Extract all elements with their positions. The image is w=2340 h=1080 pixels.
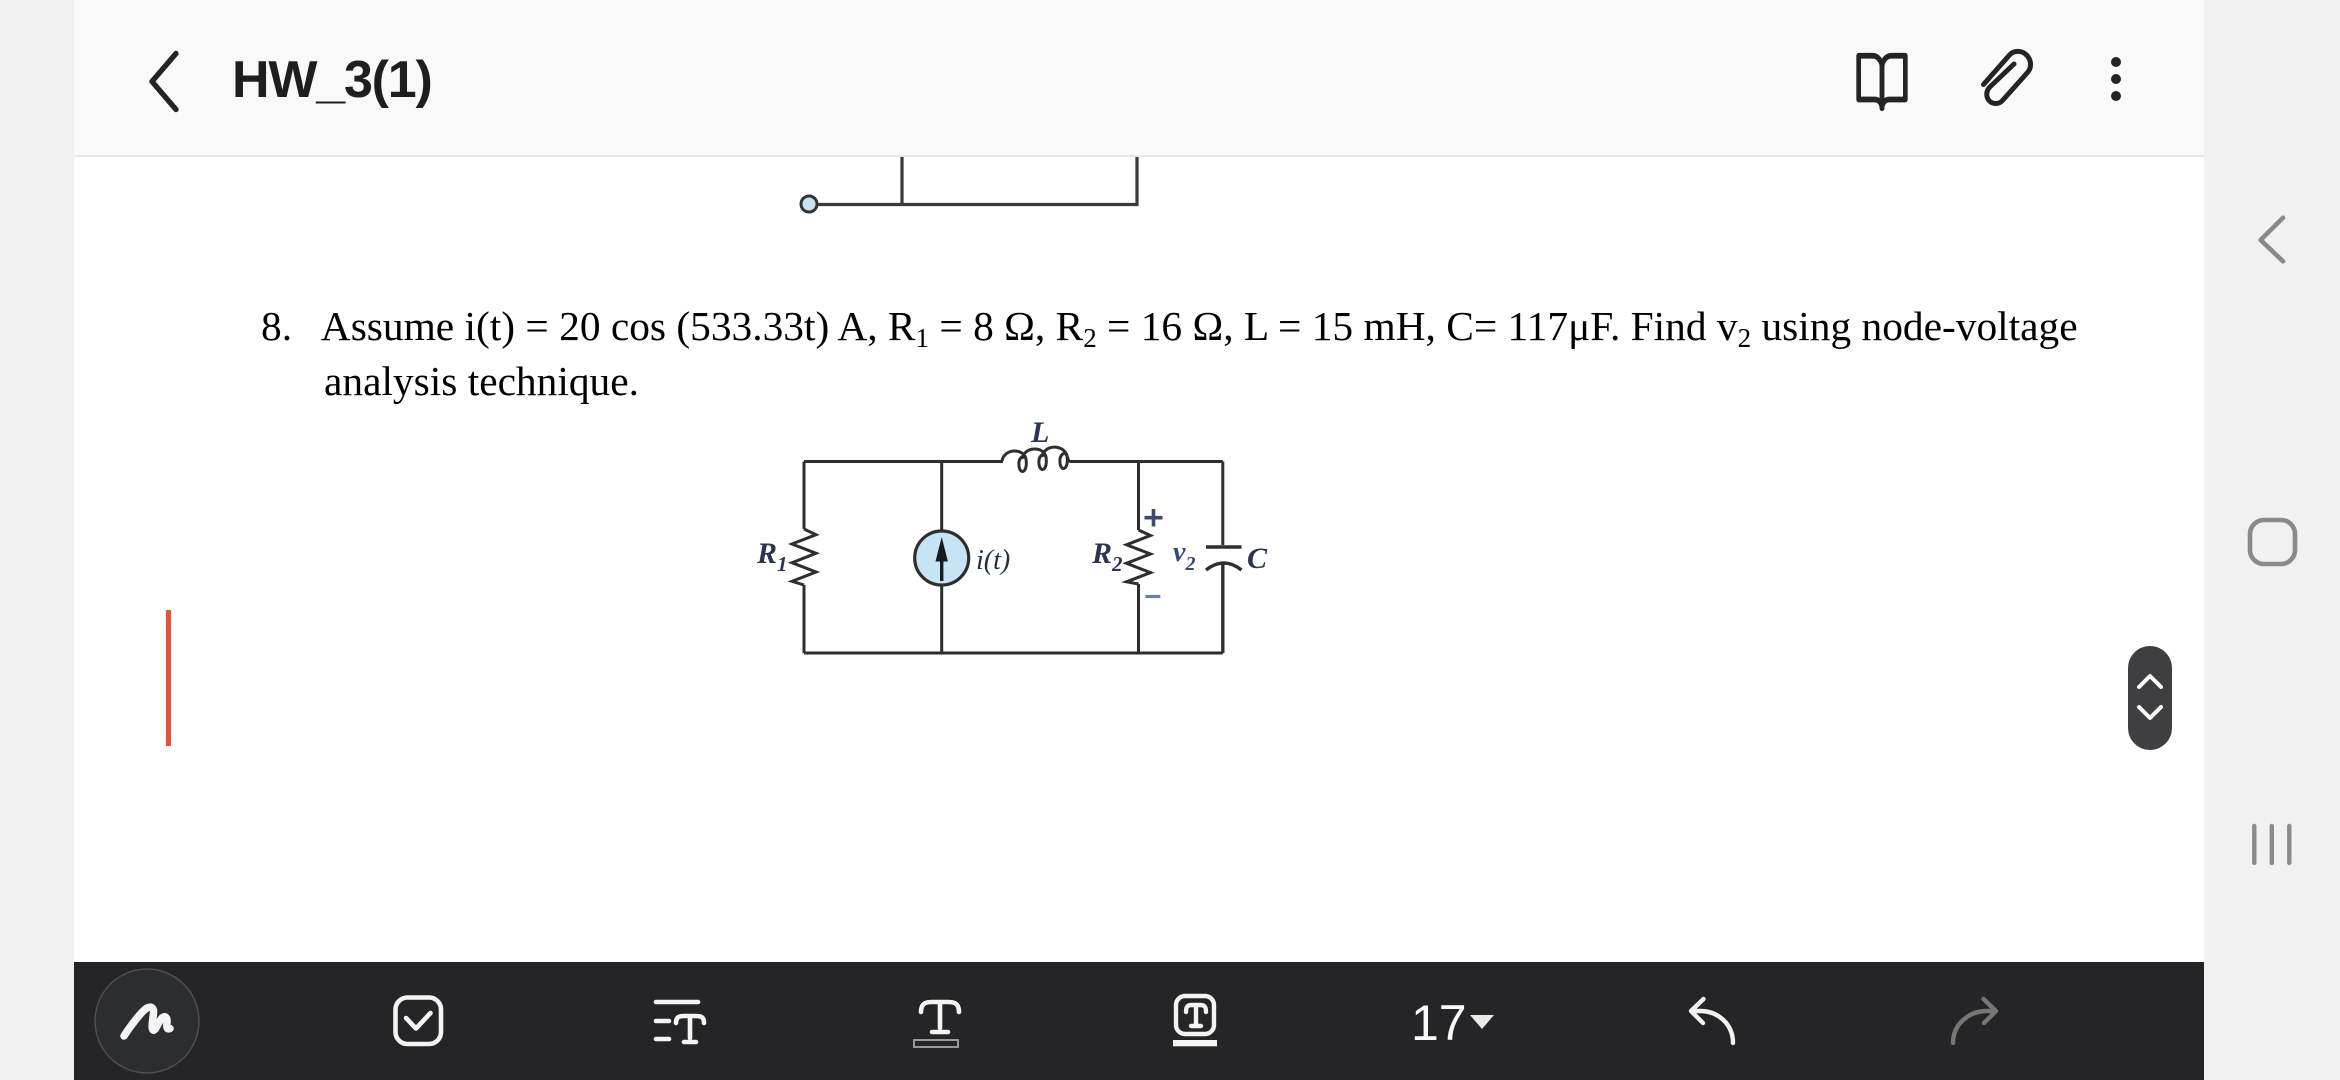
svg-text:17: 17: [1411, 995, 1467, 1051]
list-text icon: [656, 1002, 704, 1042]
resistor R2: [1127, 530, 1151, 584]
boxed-T icon: [1173, 996, 1217, 1046]
checkbox icon: [396, 998, 442, 1045]
page dropdown triangle: [1470, 1015, 1494, 1029]
top app bar: [74, 0, 2204, 157]
resistor R1: [792, 529, 816, 585]
bottom toolbar: [74, 962, 2204, 1080]
svg-text:i(t): i(t): [976, 545, 1010, 576]
pen tool circle: [74, 962, 2204, 1080]
nav back chevron: [2261, 218, 2283, 261]
problem text: [261, 301, 2161, 406]
right gray nav strip: [2204, 0, 2340, 1080]
3-dot menu: [2100, 50, 2132, 110]
inductor L loops: [1019, 453, 1067, 471]
svg-text:C: C: [1247, 542, 1268, 575]
inductor L: [1002, 447, 1071, 461]
wire top: [804, 460, 1223, 463]
wire bottom: [804, 652, 1223, 655]
nav home square: [2250, 520, 2295, 564]
circuit figure: [740, 405, 1300, 690]
scroll pill chevrons: [2139, 676, 2161, 687]
svg-text:v2: v2: [1173, 537, 1195, 575]
svg-text:L: L: [1030, 416, 1049, 449]
polarity plus: [1145, 509, 1163, 527]
wire: [900, 157, 903, 205]
pen tool circle button: [95, 969, 199, 1073]
wire: [1135, 157, 1138, 205]
partial circuit at top of document: [780, 157, 1180, 227]
red annotation line: [166, 610, 171, 746]
undo arrow: [1691, 999, 1733, 1043]
underline-T icon: [914, 1002, 959, 1047]
title: [232, 54, 432, 106]
terminal node: [801, 196, 817, 212]
svg-text:R1: R1: [756, 537, 788, 576]
scroll pill: [2128, 646, 2172, 750]
wire middle branch: [940, 462, 943, 654]
current source i(t): [915, 531, 969, 585]
redo arrow: [1953, 999, 1996, 1043]
book icon: [1854, 47, 1910, 117]
android nav bar icons: [2204, 0, 2340, 1080]
paperclip icon: [1960, 30, 2060, 130]
wire right: [1221, 462, 1224, 546]
wire left: [803, 462, 806, 654]
polarity minus: [1145, 595, 1160, 598]
wire R2 branch: [1137, 462, 1140, 654]
capacitor C: [1206, 547, 1242, 653]
left gray strip: [0, 0, 74, 1080]
svg-text:R2: R2: [1091, 537, 1123, 576]
current source arrow: [936, 537, 948, 581]
wire: [816, 203, 1139, 206]
back chevron: [140, 45, 190, 120]
nav recents bars: [2254, 826, 2289, 863]
